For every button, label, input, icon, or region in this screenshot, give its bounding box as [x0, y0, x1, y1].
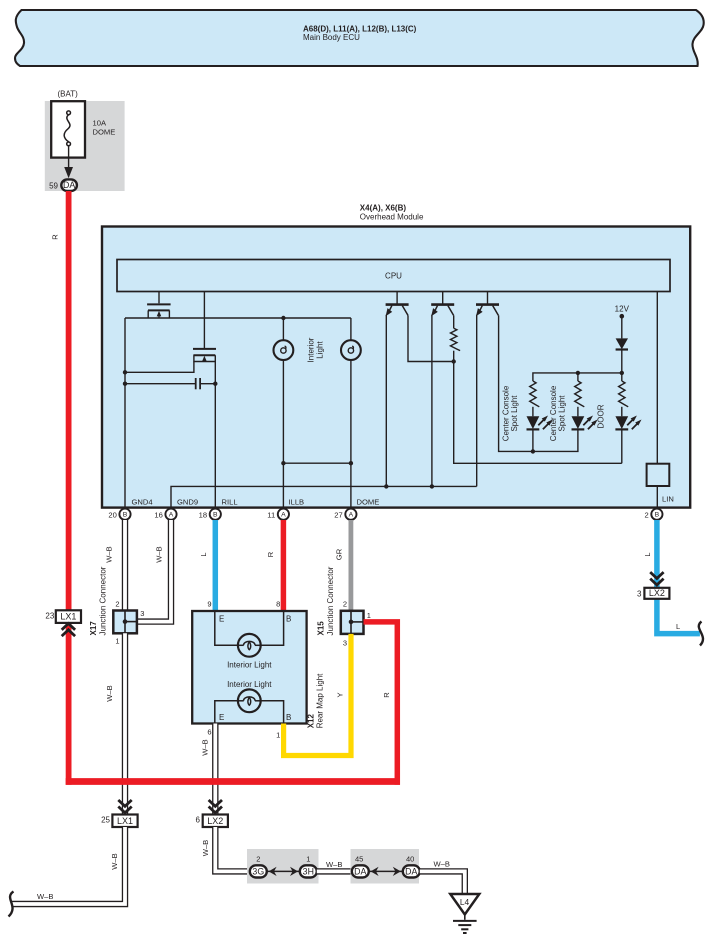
wire W-B LX1 to left edge — [12, 827, 125, 904]
label DOOR — [597, 404, 606, 428]
label R on battery wire — [51, 234, 60, 240]
svg-text:Interior Light: Interior Light — [227, 661, 272, 670]
svg-text:X17: X17 — [89, 621, 98, 636]
svg-text:27: 27 — [334, 511, 342, 520]
label W-B (3H-DA wire) — [326, 860, 342, 869]
pin 2 3G — [250, 854, 267, 877]
X12 top pin brackets — [215, 611, 284, 645]
pin 20 B GND4 — [108, 509, 130, 520]
svg-text:DA: DA — [63, 180, 75, 190]
lamp interior light L2 (module) — [341, 318, 361, 507]
LED D4 DOOR — [615, 416, 641, 430]
wire W-B GND4 to X17 — [122, 520, 128, 611]
svg-text:GR: GR — [334, 548, 343, 560]
label W-B (LX2 lower wire) — [201, 840, 210, 856]
svg-text:W–B: W–B — [326, 860, 342, 869]
wire between 3G and 3H — [266, 870, 300, 872]
svg-text:1: 1 — [276, 731, 280, 740]
svg-text:E: E — [219, 713, 224, 722]
transistor Q3 — [386, 292, 409, 317]
svg-text:DA: DA — [354, 866, 366, 876]
svg-text:W–B: W–B — [105, 546, 114, 562]
wire fuse to pin DA — [64, 146, 73, 179]
svg-text:Light: Light — [316, 341, 325, 359]
connector 25 LX1 — [101, 800, 138, 827]
label E B upper — [219, 615, 291, 624]
svg-text:LX1: LX1 — [60, 612, 76, 622]
wire Q4 emitter to GND rail — [430, 315, 434, 489]
pin label GND4 — [132, 497, 153, 506]
X17 pin numbers — [115, 599, 144, 645]
node Q3/Q4 collector junction — [452, 351, 456, 364]
pin label RILL — [222, 497, 238, 506]
connector 6 LX2 — [196, 800, 228, 827]
main body ECU banner — [15, 10, 704, 66]
label R (X15 wire) — [382, 692, 391, 698]
svg-text:6: 6 — [196, 815, 201, 824]
label W-B (GND4 wire) — [105, 546, 114, 562]
wire R X15 pin1 to bus — [364, 622, 398, 785]
node lamp1 branch — [281, 316, 285, 320]
svg-text:R: R — [382, 692, 391, 698]
CPU U1 — [117, 260, 670, 292]
svg-text:Main Body ECU: Main Body ECU — [303, 33, 360, 42]
label interior light (module) — [307, 337, 325, 362]
svg-text:12V: 12V — [615, 304, 630, 313]
wire between DA and DA — [368, 870, 403, 872]
lamp interior light (X12 upper) — [238, 634, 261, 657]
svg-text:10A: 10A — [93, 119, 107, 128]
wire rail Q1 source to lamps — [125, 317, 351, 319]
wire Q5 emitter to GND9 rail — [476, 315, 478, 487]
junction connector X15 — [341, 611, 364, 634]
pin label DOME — [357, 497, 380, 506]
svg-text:R: R — [51, 234, 60, 240]
svg-text:R: R — [266, 551, 275, 557]
wire W-B GND9 to X17 pin3 — [137, 520, 171, 622]
svg-text:B: B — [213, 512, 218, 519]
pin 59 DA — [49, 179, 77, 191]
svg-text:1: 1 — [115, 637, 119, 646]
X12 bottom pin brackets — [215, 701, 284, 724]
svg-text:ILLB: ILLB — [289, 497, 305, 506]
pin 1 3H — [300, 854, 317, 877]
wire diode to LED rail — [620, 350, 624, 382]
svg-text:18: 18 — [199, 511, 207, 520]
continuation mark bottom left — [9, 892, 14, 917]
svg-text:DOME: DOME — [93, 128, 116, 137]
junction connector X17 — [113, 611, 137, 634]
label GR — [334, 548, 343, 560]
12V supply — [615, 304, 630, 338]
svg-text:X4(A), X6(B): X4(A), X6(B) — [360, 204, 407, 213]
MOSFET Q2 — [193, 292, 216, 362]
svg-text:B: B — [655, 512, 660, 519]
svg-text:DOME: DOME — [357, 497, 380, 506]
svg-text:W–B: W–B — [105, 685, 114, 701]
label W-B (X12 pin6 wire) — [201, 739, 210, 755]
svg-text:B: B — [286, 615, 291, 624]
pin 2 B LIN — [644, 509, 662, 520]
svg-text:W–B: W–B — [201, 840, 210, 856]
wire Q5 collector to LED return rail — [499, 315, 578, 453]
svg-text:DOOR: DOOR — [597, 404, 606, 428]
svg-text:B: B — [123, 512, 128, 519]
label W-B (X17 pin1 wire) — [105, 685, 114, 701]
svg-text:(BAT): (BAT) — [58, 90, 79, 99]
pin 16 A GND9 — [154, 509, 176, 520]
resistor R3 — [575, 381, 585, 416]
connector block DA/DA background — [351, 849, 420, 884]
pin label ILLB — [289, 497, 305, 506]
wire Q2 drain / RILL riser — [214, 362, 216, 507]
pin label GND9 — [177, 497, 198, 506]
wire W-B DA to ground — [420, 871, 465, 893]
svg-text:2: 2 — [115, 599, 119, 608]
svg-text:A: A — [281, 512, 286, 519]
continuation mark right — [699, 622, 703, 646]
label center console spot light 2 — [549, 385, 567, 441]
label W-B (bottom horizontal) — [37, 892, 53, 901]
LIN interface U2 — [647, 292, 670, 507]
label X12 rear map light — [307, 673, 325, 728]
label E B lower — [219, 713, 291, 722]
ground L4 — [450, 894, 479, 933]
svg-text:L: L — [643, 552, 652, 556]
wire Y X15 pin3 to X12 pin1 — [284, 634, 351, 756]
svg-text:L: L — [676, 622, 680, 631]
label W-B (GND9 wire) — [155, 546, 164, 562]
svg-text:25: 25 — [101, 815, 110, 824]
diode D1 — [616, 338, 628, 349]
svg-text:W–B: W–B — [201, 739, 210, 755]
pin 45 DA — [352, 854, 369, 877]
svg-text:Y: Y — [336, 692, 345, 697]
svg-text:Rear Map Light: Rear Map Light — [316, 673, 325, 728]
lamp interior light (X12 lower) — [238, 689, 261, 712]
wire W-B X12 pin6 down to LX2 — [212, 724, 218, 815]
svg-text:45: 45 — [355, 854, 363, 863]
svg-text:3: 3 — [140, 609, 144, 618]
wire Q3 emitter to GND rail — [384, 315, 388, 489]
svg-text:3H: 3H — [303, 866, 314, 876]
label (BAT) — [58, 90, 79, 99]
wire L RILL to rear map light — [213, 520, 219, 611]
wire L LIN to LX2 — [657, 520, 700, 634]
svg-text:3G: 3G — [252, 866, 264, 876]
wire GND9 rail — [171, 486, 477, 506]
LED D2 center console spot light 1 — [527, 416, 553, 430]
svg-text:L4: L4 — [460, 897, 470, 907]
wire W-B LX2 to 3G — [215, 827, 250, 871]
resistor R4 — [619, 381, 629, 416]
svg-text:1: 1 — [306, 854, 310, 863]
connector arrows 3G/3H — [269, 867, 298, 876]
svg-text:W–B: W–B — [110, 853, 119, 869]
label X15 junction connector — [317, 566, 336, 635]
wire lamp junction ILLB/DOME — [281, 461, 353, 465]
svg-text:16: 16 — [154, 511, 162, 520]
svg-text:Junction Connector: Junction Connector — [99, 566, 108, 635]
label W-B (LX1 lower wire) — [110, 853, 119, 869]
pin 27 A DOME — [334, 509, 356, 520]
svg-text:59: 59 — [49, 182, 58, 191]
svg-text:A: A — [169, 512, 174, 519]
svg-text:LX2: LX2 — [207, 816, 223, 826]
svg-text:RILL: RILL — [222, 497, 238, 506]
wire collector junction to DOOR LED — [454, 362, 622, 464]
resistor R2 — [530, 381, 540, 416]
svg-text:40: 40 — [406, 854, 414, 863]
wire rail to GND4 — [124, 318, 126, 507]
wire LED2 feed — [577, 373, 579, 381]
label L (LIN wire) — [643, 552, 652, 556]
label W-B (ground wire) — [434, 860, 450, 869]
svg-text:LX2: LX2 — [649, 588, 665, 598]
svg-text:3: 3 — [637, 590, 642, 599]
svg-text:1: 1 — [367, 611, 371, 620]
svg-text:Interior: Interior — [307, 337, 316, 362]
LED D3 center console spot light 2 — [572, 416, 598, 430]
svg-text:23: 23 — [45, 612, 54, 621]
wire W-B 3H to DA — [317, 868, 352, 874]
X12 pin numbers — [207, 600, 280, 740]
svg-text:B: B — [286, 713, 291, 722]
pin 11 A ILLB — [267, 509, 289, 520]
wire GR DOME to X15 — [348, 520, 353, 611]
connector block 3G/3H background — [247, 849, 319, 884]
overhead module X4(A) X6(B) — [102, 227, 690, 508]
svg-text:2: 2 — [644, 511, 648, 520]
lamp interior light L1 (module) — [274, 318, 294, 463]
wire W-B X17 pin1 down — [122, 633, 128, 814]
wire R battery feed (vertical) — [66, 191, 72, 785]
svg-text:L: L — [199, 552, 208, 556]
svg-text:W–B: W–B — [155, 546, 164, 562]
label R (ILLB wire) — [266, 551, 275, 557]
svg-text:E: E — [219, 615, 224, 624]
svg-text:Overhead Module: Overhead Module — [360, 213, 424, 222]
wire LED feed rail — [533, 371, 622, 381]
module title — [360, 204, 424, 222]
wire Q3 collector — [408, 315, 454, 361]
svg-text:W–B: W–B — [434, 860, 450, 869]
X15 pin numbers — [343, 600, 371, 648]
rear map light X12 — [192, 611, 306, 724]
svg-text:DA: DA — [405, 866, 417, 876]
svg-text:W–B: W–B — [37, 892, 53, 901]
svg-text:Spot Light: Spot Light — [557, 395, 566, 432]
svg-text:Interior Light: Interior Light — [227, 680, 272, 689]
pin label LIN — [662, 495, 674, 504]
connector arrows DA/DA — [371, 867, 401, 876]
connector 23 LX1 on battery wire — [45, 610, 81, 636]
svg-text:A: A — [349, 512, 354, 519]
connector 3 LX2 — [637, 572, 669, 599]
transistor Q4 — [431, 292, 454, 317]
svg-text:8: 8 — [276, 600, 280, 609]
svg-text:CPU: CPU — [385, 272, 402, 281]
label L (RILL wire) — [199, 552, 208, 556]
svg-text:Spot Light: Spot Light — [510, 395, 519, 432]
svg-text:Junction Connector: Junction Connector — [326, 566, 335, 635]
svg-text:3: 3 — [343, 639, 347, 648]
svg-text:9: 9 — [207, 600, 211, 609]
svg-text:X15: X15 — [317, 621, 326, 636]
wire R ILLB to rear map light — [281, 520, 287, 611]
svg-text:6: 6 — [207, 728, 211, 737]
svg-text:LX1: LX1 — [117, 816, 133, 826]
fuse holder background — [45, 101, 125, 191]
label Y — [336, 692, 345, 697]
pin 40 DA — [403, 854, 420, 877]
resistor R1 — [451, 315, 461, 350]
wire DOOR LED return — [621, 429, 623, 463]
capacitor C1 — [123, 378, 218, 389]
svg-text:X12: X12 — [307, 714, 316, 729]
wire R bus (thick horizontal) — [66, 778, 400, 785]
svg-text:GND4: GND4 — [132, 497, 153, 506]
label center console spot light 1 — [502, 385, 520, 441]
label X17 junction connector — [89, 566, 108, 635]
pin 18 B RILL — [199, 509, 221, 520]
label L (horizontal) — [676, 622, 680, 631]
wire LED1 return — [532, 430, 534, 451]
label interior light upper — [227, 661, 272, 670]
wire Q2 source to GND4 rail — [123, 362, 194, 375]
svg-text:LIN: LIN — [662, 495, 674, 504]
MOSFET Q1 — [147, 292, 171, 319]
svg-text:2: 2 — [256, 854, 260, 863]
label interior light lower — [227, 680, 272, 689]
svg-text:2: 2 — [343, 600, 347, 609]
fuse 10A DOME — [51, 101, 115, 157]
wire ILLB riser — [282, 463, 284, 506]
transistor Q5 — [476, 292, 499, 317]
svg-text:20: 20 — [108, 511, 116, 520]
svg-text:11: 11 — [267, 511, 275, 520]
svg-text:GND9: GND9 — [177, 497, 198, 506]
